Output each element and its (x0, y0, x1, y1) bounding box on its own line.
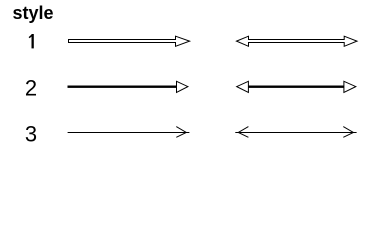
row 3: style-3 thin shaft line (right-pointing arrow) (68, 132, 190, 134)
row 3: style-3 chevron barbs right end (343, 127, 353, 138)
svg-text:style: style (13, 3, 54, 23)
row 2: style-2 thick shaft line (right-pointing arrow) (68, 86, 177, 88)
svg-text:3: 3 (25, 122, 37, 147)
row 2: style-2 open triangle head left (237, 81, 249, 92)
row 3: style-3 thin shaft line (double arrow) (235, 132, 356, 134)
row 2: style-2 open triangle head right (344, 81, 356, 92)
row 3: style-3 chevron barbs right (176, 127, 186, 138)
row 2: style-2 thick shaft line (double arrow) (248, 86, 344, 88)
row 1: style-1 hollow block double arrow (237, 36, 358, 46)
row 1: style-1 hollow block arrow (right-pointing) (69, 36, 190, 46)
svg-text:2: 2 (25, 75, 37, 100)
row label 1 (29, 34, 34, 48)
row 3: style-3 chevron barbs left end (238, 127, 248, 138)
row 2: style-2 open triangle head (177, 81, 188, 92)
